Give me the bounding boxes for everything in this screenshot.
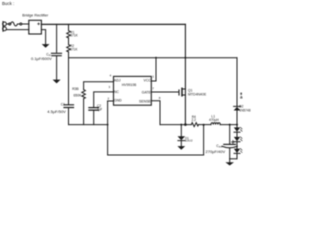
svg-text:HV9910B: HV9910B (122, 83, 137, 87)
svg-text:1: 1 (152, 75, 154, 79)
svg-text:671K: 671K (70, 33, 78, 37)
svg-text:E3U2: E3U2 (185, 139, 193, 143)
svg-text:C1: C1 (61, 102, 65, 106)
svg-text:671K: 671K (70, 47, 78, 51)
svg-text:3: 3 (109, 85, 111, 89)
svg-text:8: 8 (159, 96, 161, 100)
svg-text:1µF: 1µF (97, 107, 103, 111)
svg-text:650K: 650K (74, 94, 83, 98)
svg-text:270µF/40V: 270µF/40V (206, 149, 226, 154)
svg-text:0.1µF/600V: 0.1µF/600V (31, 56, 52, 61)
svg-text:Buck :: Buck : (2, 1, 14, 6)
svg-text:VCC: VCC (144, 78, 152, 82)
svg-text:NC: NC (114, 90, 120, 94)
svg-text:a: a (240, 94, 243, 99)
svg-text:470µH: 470µH (209, 118, 219, 122)
svg-text:2.2: 2.2 (192, 118, 197, 122)
svg-text:4: 4 (110, 73, 112, 77)
svg-text:R3B: R3B (72, 87, 79, 91)
svg-text:2: 2 (108, 96, 110, 100)
svg-text:Bridge Rectifier: Bridge Rectifier (22, 13, 49, 17)
svg-text:GATE: GATE (142, 90, 152, 94)
svg-text:GND: GND (114, 98, 122, 102)
svg-text:MTD4N40E: MTD4N40E (188, 92, 207, 96)
svg-text:7: 7 (152, 87, 154, 91)
svg-text:SENSE: SENSE (139, 99, 152, 103)
svg-text:ADJ: ADJ (114, 79, 121, 83)
svg-text:1N5748: 1N5748 (239, 108, 250, 112)
svg-text:4.5µF/50V: 4.5µF/50V (47, 109, 66, 114)
